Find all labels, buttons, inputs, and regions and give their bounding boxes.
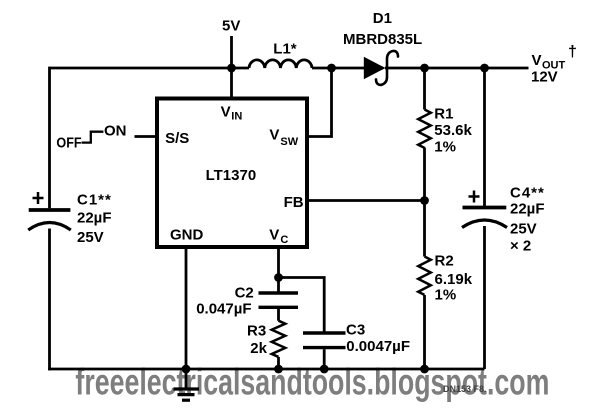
wire VC node to C3: [279, 278, 325, 370]
wire inductor to diode: [312, 67, 364, 70]
svg-text:2k: 2k: [250, 340, 267, 357]
label C1 value: [77, 191, 112, 245]
diode D1 schottky cathode: [376, 51, 398, 85]
svg-text:0.047µF: 0.047µF: [196, 301, 251, 318]
svg-text:DN153 F8.: DN153 F8.: [443, 384, 487, 394]
wire S/S stub: [135, 135, 158, 138]
svg-text:SW: SW: [280, 136, 298, 148]
pin VSW: [269, 127, 298, 148]
svg-text:1%: 1%: [434, 138, 456, 155]
node R1 top junction: [420, 64, 429, 73]
capacitor C1 plus sign: [33, 192, 44, 204]
svg-text:C: C: [280, 234, 288, 246]
svg-text:C2: C2: [235, 285, 254, 302]
svg-text:22µF: 22µF: [77, 210, 112, 227]
svg-text:V: V: [532, 52, 542, 69]
wire bottom rail: [48, 368, 484, 371]
wire VC pin: [277, 248, 280, 278]
wire diode to Vout: [385, 67, 529, 70]
diode D1: [364, 57, 386, 79]
svg-text:LT1370: LT1370: [206, 167, 257, 184]
resistor R2: [418, 257, 431, 295]
svg-text:C3: C3: [346, 321, 365, 338]
pin VC: [269, 227, 288, 247]
label R1 value: [434, 105, 472, 155]
label R3 value: [247, 323, 268, 358]
capacitor C1 plates: [28, 210, 71, 230]
wire C4 branch top: [483, 68, 486, 208]
label C4 value: [510, 185, 545, 255]
svg-text:25V: 25V: [510, 220, 537, 237]
svg-text:0.0047µF: 0.0047µF: [346, 338, 410, 355]
svg-text:L1*: L1*: [273, 41, 297, 58]
svg-text:C4**: C4**: [510, 185, 545, 202]
on-off step waveform: [82, 132, 104, 143]
node GND rail junction: [182, 365, 191, 374]
wire R2 top: [423, 201, 426, 257]
node L1/VSW junction: [327, 64, 336, 73]
capacitor C2 plates: [259, 293, 299, 307]
svg-text:FB: FB: [284, 194, 304, 211]
svg-text:S/S: S/S: [165, 130, 189, 147]
inductor L1: [249, 60, 312, 68]
svg-text:22µF: 22µF: [510, 201, 545, 218]
svg-text:MBRD835L: MBRD835L: [343, 31, 422, 48]
capacitor C4 plates: [462, 208, 507, 228]
resistor R3: [272, 321, 286, 357]
label C2 value: [196, 285, 254, 318]
wire C2 branch: [277, 278, 280, 321]
capacitor C3 plates: [303, 333, 346, 348]
ground: [174, 369, 200, 400]
IC U1 LT1370 box: [157, 99, 307, 248]
svg-text:V: V: [269, 127, 279, 144]
wire FB pin: [307, 199, 425, 202]
node C4 top junction: [480, 64, 489, 73]
svg-text:1%: 1%: [435, 287, 457, 304]
wire R1 branch top: [423, 68, 426, 110]
label C3 value: [346, 321, 410, 355]
wire left vertical rail: [48, 67, 51, 371]
wire GND pin: [185, 248, 188, 369]
wire VSW to inductor node: [307, 68, 332, 137]
svg-text:12V: 12V: [531, 69, 558, 86]
svg-text:53.6k: 53.6k: [434, 122, 472, 139]
svg-text:D1: D1: [373, 10, 392, 27]
svg-text:R1: R1: [434, 105, 453, 122]
svg-text:†: †: [568, 44, 577, 61]
svg-text:6.19k: 6.19k: [435, 271, 473, 288]
node R2 rail junction: [420, 365, 429, 374]
capacitor C4 plus sign: [469, 191, 480, 203]
wire R2 bottom: [423, 295, 426, 369]
svg-text:C1**: C1**: [77, 191, 112, 208]
svg-text:freeelectricalsandtools.blogsp: freeelectricalsandtools.blogspot.com: [75, 361, 549, 402]
svg-text:R2: R2: [435, 252, 454, 269]
label VOUT: [531, 44, 577, 86]
svg-text:OFF: OFF: [56, 133, 81, 150]
node VC junction: [274, 273, 283, 282]
svg-text:ON: ON: [104, 122, 127, 139]
pin VIN: [221, 103, 243, 122]
wire top rail left: [50, 67, 250, 70]
svg-text:GND: GND: [170, 227, 204, 244]
resistor R1: [418, 110, 431, 148]
node 5V/VIN junction: [227, 64, 236, 73]
wire 5V stub into VIN: [230, 36, 233, 99]
wire C4 branch bottom: [483, 226, 486, 369]
svg-text:× 2: × 2: [510, 237, 531, 254]
label R2 value: [435, 252, 473, 303]
svg-text:V: V: [221, 103, 231, 120]
wire R1 branch bottom: [423, 148, 426, 201]
node R3 rail junction: [274, 365, 283, 374]
svg-text:IN: IN: [231, 111, 242, 123]
wire R3 bottom: [277, 357, 280, 369]
node FB junction: [420, 196, 429, 205]
svg-text:25V: 25V: [77, 229, 104, 246]
svg-text:R3: R3: [247, 323, 266, 340]
svg-text:5V: 5V: [222, 17, 240, 34]
node C3 rail junction: [320, 365, 329, 374]
svg-text:V: V: [269, 227, 279, 244]
